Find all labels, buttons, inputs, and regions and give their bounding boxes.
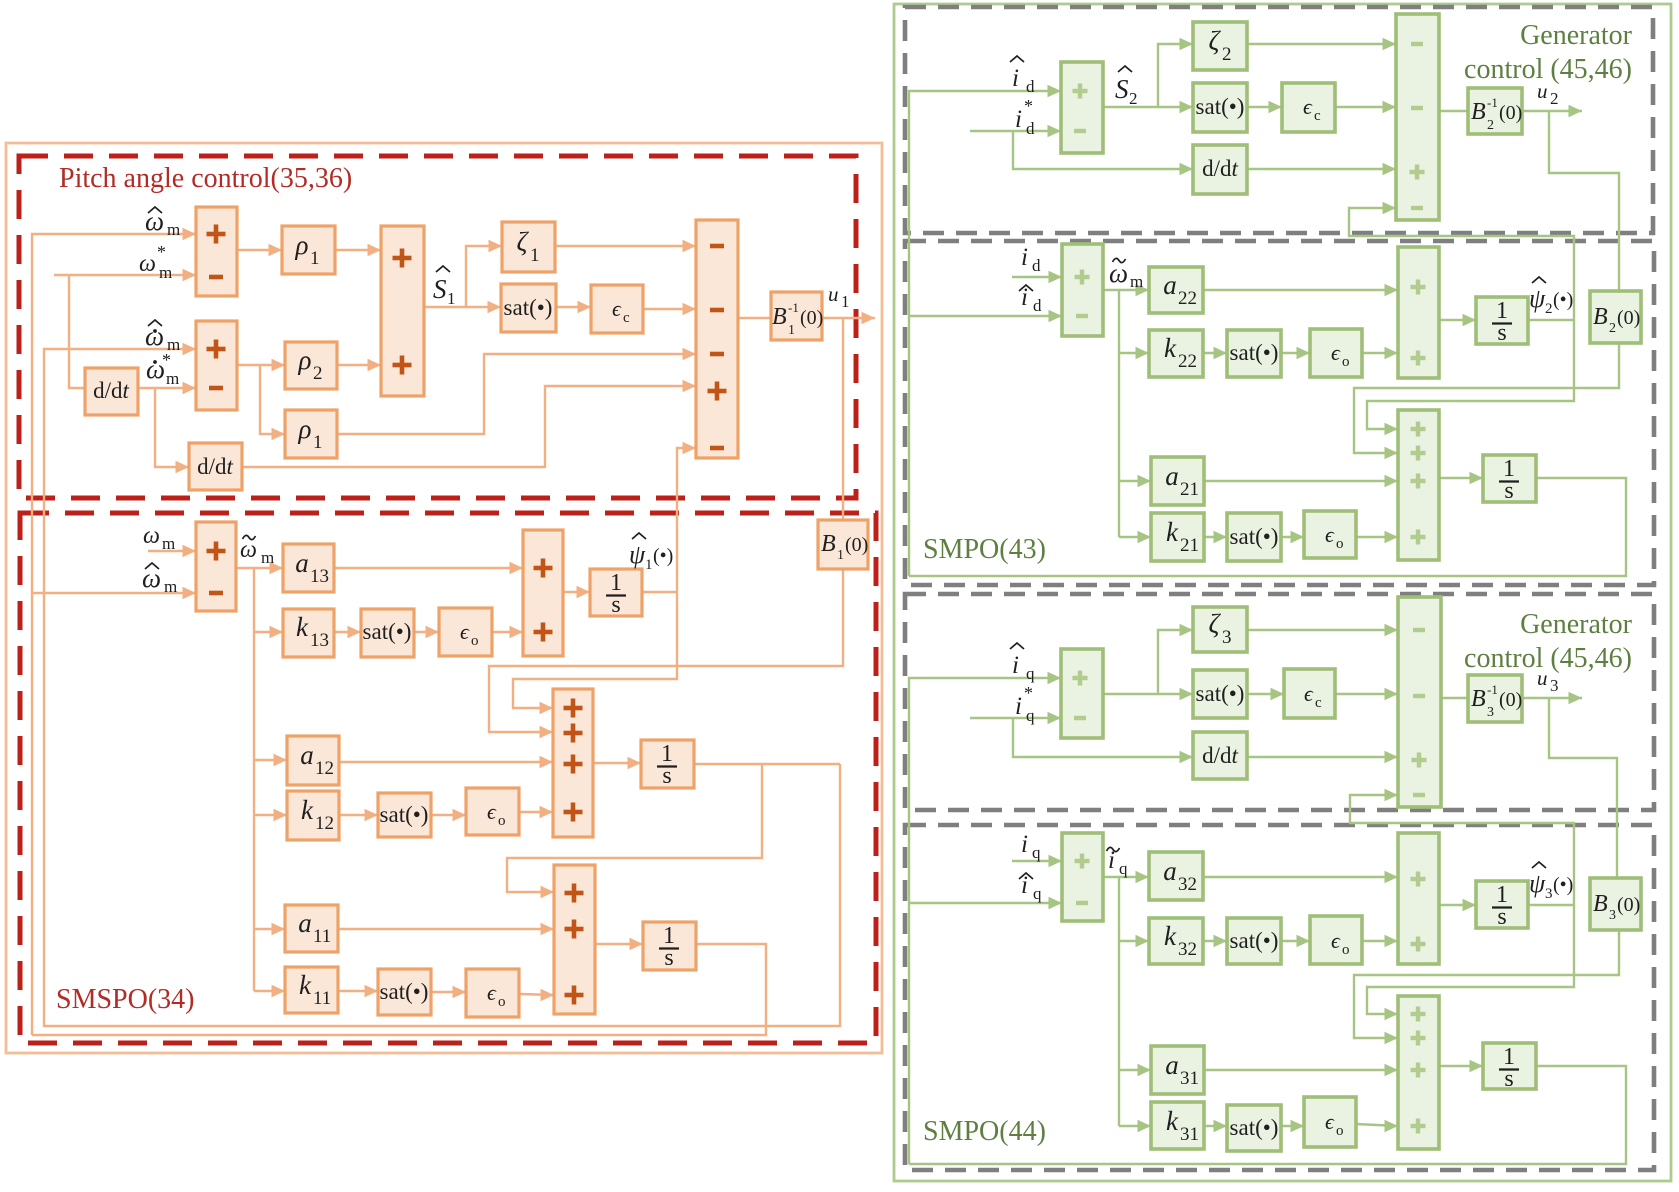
svg-text:o: o <box>471 633 479 649</box>
block eps_o 44a <box>1310 916 1362 964</box>
wire a13 out to sum4 <box>334 562 523 574</box>
wire S2 branch to zeta2 <box>1158 38 1193 107</box>
block ddt1 <box>85 368 138 415</box>
block 1/s 43a <box>1476 297 1528 346</box>
sum block SMSPO sum1 <box>196 522 236 611</box>
block a11 <box>285 905 338 952</box>
wire zeta2 out <box>1247 38 1396 50</box>
block k32 <box>1149 918 1203 964</box>
wire iq_hat estimate loop <box>909 1066 1626 1164</box>
block ddt g2 <box>1193 732 1247 779</box>
wire eps_o2 to middle sum <box>519 806 553 818</box>
wire k12 to sat3 <box>339 809 378 821</box>
svg-text:s: s <box>1504 1066 1513 1092</box>
svg-text:-1: -1 <box>788 300 799 315</box>
label omega_star_m pitch1 <box>139 242 172 282</box>
wire pitch sum2 out to rho2 <box>237 359 285 371</box>
block B2 inverse <box>1468 88 1522 134</box>
wire sat to eps_o 44b <box>1281 1120 1304 1132</box>
block B3 inverse <box>1468 675 1522 722</box>
wire sum2 out to 1/s 44 <box>1439 899 1476 911</box>
wire omega_dot_hat rail to pitch sum2 + <box>44 343 840 1026</box>
svg-text:1: 1 <box>447 289 456 308</box>
label omega_dotstar_m pitch2 <box>146 350 179 388</box>
svg-text:d: d <box>1026 77 1035 96</box>
wire omega_star branch to d/dt1 <box>69 275 85 388</box>
svg-text:s: s <box>1504 478 1513 504</box>
label iq_tilde SMPO44 <box>1107 847 1129 878</box>
wire id_star to gen1 sum - <box>970 125 1061 137</box>
wire eps_c out g2 <box>1335 688 1398 700</box>
wire psi1hat down to middle sum <box>513 592 677 714</box>
sum block SMPO43 sum3 <box>1398 410 1439 560</box>
svg-text:ρ: ρ <box>295 230 309 260</box>
wire trunk to a11 <box>254 923 285 935</box>
svg-text:a: a <box>300 740 314 770</box>
wire sum3 out to 1/s2 44 <box>1439 1060 1483 1072</box>
wire omega_star input to pitch sum1 - <box>54 269 196 281</box>
wire u1 branch down to B1(0) <box>842 318 844 520</box>
block k22 <box>1149 330 1203 377</box>
sum block bottom sum <box>554 865 595 1014</box>
block eps_o2 <box>466 788 519 835</box>
block sat g1 <box>1193 83 1247 132</box>
svg-text:ϵ: ϵ <box>1331 928 1341 953</box>
wire id_star branch to ddt <box>1013 131 1193 175</box>
block 1/s 43b <box>1483 455 1536 504</box>
wire iq_hat rail to gen2 sum + <box>909 672 1061 1164</box>
svg-text:11: 11 <box>313 926 331 947</box>
block sat1 <box>501 284 556 332</box>
svg-text:11: 11 <box>313 988 331 1009</box>
wire iq input stub <box>1012 855 1062 867</box>
block k13 <box>283 609 334 657</box>
label psi1 hat <box>629 533 673 573</box>
sum block pitch sum1 <box>196 207 237 296</box>
svg-text:3: 3 <box>1550 676 1559 695</box>
svg-text:22: 22 <box>1178 288 1197 309</box>
svg-text:c: c <box>1315 695 1322 711</box>
svg-text:(0): (0) <box>1617 307 1640 329</box>
block rho1b <box>285 410 337 458</box>
wire eps_c out g1 <box>1335 101 1396 113</box>
block sat4 <box>378 969 431 1015</box>
svg-text:21: 21 <box>1180 479 1199 500</box>
wire omega_hat_m branch to SMSPO sum - <box>32 587 196 599</box>
wire zeta1 out to minus block <box>555 240 696 252</box>
svg-text:(0): (0) <box>845 534 868 556</box>
svg-text:(•): (•) <box>1553 289 1573 311</box>
svg-text:d: d <box>1026 119 1035 138</box>
wire k22 to sat <box>1203 347 1227 359</box>
svg-text:i: i <box>1021 244 1028 271</box>
wire omega_tilde trunk 43 <box>1103 290 1119 537</box>
wire B3(0) down to sum3 input2 44 <box>1354 930 1619 1044</box>
svg-text:o: o <box>1342 354 1350 370</box>
svg-text:q: q <box>1026 664 1035 683</box>
svg-text:3: 3 <box>1545 886 1553 902</box>
svg-text:ρ: ρ <box>298 345 312 375</box>
svg-text:sat(•): sat(•) <box>1196 94 1245 119</box>
svg-text:q: q <box>1032 843 1041 862</box>
svg-text:2: 2 <box>1129 89 1138 108</box>
svg-text:ω: ω <box>143 523 160 549</box>
block eps_o 44b <box>1304 1097 1356 1147</box>
block 1/s 44b <box>1483 1043 1536 1092</box>
wire id_hat branch to SMPO43 sum - <box>909 310 1062 322</box>
block k12 <box>287 791 339 840</box>
svg-text:12: 12 <box>315 758 334 779</box>
wire id_hat rail to gen1 sum + <box>909 85 1061 576</box>
svg-text:m: m <box>167 220 180 239</box>
label omega_m smspo <box>143 523 175 553</box>
svg-text:-1: -1 <box>1487 682 1498 697</box>
label omega_hat_m smspo <box>142 563 177 596</box>
svg-text:32: 32 <box>1178 874 1197 895</box>
svg-text:(0): (0) <box>1499 102 1522 124</box>
label iq_hat gen2 <box>1010 643 1035 683</box>
svg-text:k: k <box>296 612 309 642</box>
block k11 <box>285 967 338 1013</box>
svg-text:13: 13 <box>310 630 329 651</box>
wire k21 to sat <box>1204 531 1227 543</box>
sum block SMPO43 sum2 <box>1398 247 1439 378</box>
wire sat3 to eps_o2 <box>431 809 466 821</box>
svg-text:c: c <box>623 310 630 326</box>
svg-text:1: 1 <box>645 557 653 573</box>
block eps_c pitch <box>591 285 643 333</box>
wire u3 branch to B3(0) <box>1549 698 1617 878</box>
svg-text:ϵ: ϵ <box>1303 94 1313 119</box>
wire trunk to a13 <box>254 562 283 574</box>
svg-text:sat(•): sat(•) <box>1230 928 1279 953</box>
pitch angle control dashed border <box>19 156 856 498</box>
svg-text:(•): (•) <box>1553 874 1573 896</box>
svg-text:i: i <box>1012 652 1019 679</box>
sum block gen1 chain <box>1396 14 1439 220</box>
wire psi3 out <box>1528 904 1574 906</box>
svg-text:B: B <box>1593 891 1608 917</box>
wire branch to rho1b <box>260 365 285 440</box>
block a12 <box>287 736 339 785</box>
SMSPO dashed border <box>20 513 876 1043</box>
wire rho1b out to minus block <box>337 348 696 434</box>
svg-text:i: i <box>1015 693 1022 720</box>
label id_hat gen1 <box>1010 56 1035 96</box>
svg-text:-1: -1 <box>1487 95 1498 110</box>
label omega_tilde_m smspo <box>240 535 274 567</box>
svg-text:2: 2 <box>1222 44 1232 65</box>
wire sum2 out to 1/s 43 <box>1439 314 1476 326</box>
svg-text:2: 2 <box>1550 89 1559 108</box>
svg-text:s: s <box>1497 320 1506 346</box>
svg-text:d: d <box>1033 296 1042 315</box>
wire eps_o out 44a <box>1362 935 1398 947</box>
svg-text:k: k <box>301 795 314 825</box>
svg-text:S: S <box>1115 74 1129 104</box>
svg-text:i: i <box>1015 106 1022 133</box>
outer orange border box <box>6 143 882 1053</box>
title Generator control 1 <box>1464 20 1633 85</box>
wire sat out to eps_c <box>556 301 591 313</box>
wire sat4 to eps_o3 <box>431 986 466 998</box>
block sat 44a <box>1227 918 1281 964</box>
svg-text:ω: ω <box>145 206 164 236</box>
svg-text:m: m <box>261 548 274 567</box>
sum block gen2 sum1 <box>1061 649 1103 738</box>
wire x2 branch to bottom sum <box>507 764 762 898</box>
wire trunk to a12 <box>254 754 287 766</box>
svg-text:1: 1 <box>530 245 540 266</box>
svg-text:*: * <box>1024 683 1033 703</box>
sum block big plus <box>381 226 424 396</box>
block sat 43a <box>1227 330 1281 377</box>
svg-text:o: o <box>1336 1123 1344 1139</box>
wire B2(0) down to sum3 input2 <box>1354 343 1619 459</box>
svg-text:sat(•): sat(•) <box>504 295 553 320</box>
svg-text:2: 2 <box>1487 118 1494 133</box>
sum block SMPO44 sum2 <box>1398 833 1439 964</box>
wire trunk to a31 <box>1119 1064 1151 1076</box>
svg-text:m: m <box>1130 272 1143 291</box>
wire sat to eps_o 44a <box>1281 935 1310 947</box>
svg-text:Generator: Generator <box>1520 20 1633 51</box>
svg-text:*: * <box>157 242 166 262</box>
sum block SMPO44 sum1 <box>1062 833 1103 921</box>
block sat 44b <box>1227 1105 1281 1151</box>
wire S2 out to sat <box>1103 101 1193 113</box>
svg-text:ϵ: ϵ <box>487 980 497 1005</box>
wire trunk to a32 <box>1119 871 1149 883</box>
wire iq_star branch to ddt g2 <box>1013 718 1193 763</box>
wire trunk to k32 <box>1119 935 1149 947</box>
label iq SMPO44 <box>1021 831 1041 862</box>
block 1/s 1 <box>590 569 642 618</box>
wire trunk to k11 <box>254 985 285 997</box>
svg-text:B: B <box>821 531 836 557</box>
sum block pitch sum2 <box>196 321 237 410</box>
label omega_tilde SMPO43 <box>1109 258 1143 291</box>
sum block minus chain <box>696 220 738 458</box>
wire psi3 down to sum3 input1 44 <box>1367 905 1574 1020</box>
block k31 <box>1151 1102 1204 1149</box>
block B1(0) <box>818 520 868 569</box>
wire id_hat estimate loop <box>909 478 1626 576</box>
label iq_star gen2 <box>1015 683 1035 725</box>
block 1/s 2 <box>641 740 694 789</box>
wire B1(0) down to middle sum <box>489 569 843 738</box>
block zeta1 <box>502 222 555 272</box>
svg-text:1: 1 <box>841 292 850 311</box>
wire middle sum out to 1/s2 <box>593 757 641 769</box>
wire k13 to sat2 <box>334 626 361 638</box>
wire trunk to a21 <box>1119 475 1151 487</box>
block sat2 <box>361 609 414 657</box>
wire psi2 out <box>1528 319 1574 321</box>
svg-text:32: 32 <box>1178 939 1197 960</box>
svg-text:control (45,46): control (45,46) <box>1464 643 1632 674</box>
svg-text:ρ: ρ <box>298 414 312 444</box>
svg-text:a: a <box>1165 1050 1179 1080</box>
svg-text:*: * <box>162 350 171 370</box>
svg-text:sat(•): sat(•) <box>1196 681 1245 706</box>
svg-text:*: * <box>1024 96 1033 116</box>
block 1/s 3 <box>643 922 696 971</box>
wire iq_hat branch to SMPO44 sum - <box>909 897 1062 909</box>
svg-text:B: B <box>1471 686 1486 712</box>
svg-text:k: k <box>1166 1106 1179 1136</box>
svg-text:u: u <box>828 282 839 306</box>
svg-text:sat(•): sat(•) <box>380 802 429 827</box>
block rho2 <box>285 342 337 389</box>
svg-text:S: S <box>433 274 447 304</box>
wire gen1 sum out to B2inv <box>1439 110 1468 112</box>
sum block gen2 chain <box>1398 597 1441 807</box>
wire sat to eps_c g2 <box>1247 688 1284 700</box>
svg-text:2: 2 <box>1545 301 1553 317</box>
title Pitch angle control(35,36) <box>59 163 352 194</box>
svg-text:ϵ: ϵ <box>487 799 497 824</box>
wire S1hat branch to zeta1 <box>466 240 502 307</box>
svg-text:u: u <box>1537 79 1548 103</box>
svg-text:B: B <box>772 304 787 330</box>
wire rho2 out <box>337 359 381 371</box>
wire sum4 out to 1/s1 <box>563 586 590 598</box>
wire iq_tilde trunk 44 <box>1103 877 1119 1126</box>
label id_star gen1 <box>1015 96 1035 138</box>
svg-text:ϵ: ϵ <box>1331 340 1341 365</box>
wire gen2 sum out to B3inv <box>1441 697 1468 699</box>
svg-text:m: m <box>159 263 172 282</box>
wire rho1 out to big plus sum <box>335 244 381 256</box>
block k21 <box>1151 513 1204 561</box>
block sat3 <box>378 793 431 837</box>
svg-text:k: k <box>1166 517 1179 547</box>
wire a12 out to middle sum <box>339 756 553 768</box>
svg-text:a: a <box>1165 461 1179 491</box>
title SMPO(44) <box>923 1116 1046 1147</box>
block zeta3 <box>1193 607 1247 652</box>
svg-text:sat(•): sat(•) <box>1230 1115 1279 1140</box>
block B2(0) <box>1590 291 1641 343</box>
block 1/s 44a <box>1476 881 1528 930</box>
svg-text:k: k <box>299 970 312 1000</box>
svg-text:a: a <box>1163 856 1177 886</box>
svg-text:B: B <box>1471 99 1486 125</box>
svg-text:a: a <box>295 548 309 578</box>
wire k11 to sat4 <box>338 985 378 997</box>
svg-text:31: 31 <box>1180 1068 1199 1089</box>
block ddt g1 <box>1193 145 1247 194</box>
wire a31 out <box>1204 1064 1398 1076</box>
wire sat2 to eps_o1 <box>414 626 439 638</box>
wire minus block out to B1inv <box>738 317 771 319</box>
svg-text:k: k <box>1164 333 1177 363</box>
wire u3 output <box>1522 692 1582 704</box>
block a32 <box>1149 852 1203 900</box>
wire a22 out <box>1203 284 1398 296</box>
svg-text:3: 3 <box>1487 705 1494 720</box>
svg-text:d/dt: d/dt <box>1202 156 1238 181</box>
block B1 inverse <box>771 292 823 340</box>
wire eps_o out 43b <box>1356 531 1398 543</box>
wire k32 to sat <box>1203 935 1227 947</box>
svg-text:12: 12 <box>315 813 334 834</box>
wire psi1hat up to minus block - <box>677 442 696 592</box>
svg-text:22: 22 <box>1178 351 1197 372</box>
sum block middle sum <box>553 689 593 837</box>
label omega_hat_m pitch1 <box>145 206 180 239</box>
label psi3 hat <box>1529 862 1573 902</box>
block eps_c g2 <box>1284 669 1335 718</box>
wire S3 out to sat <box>1103 688 1193 700</box>
svg-text:u: u <box>1537 666 1548 690</box>
block eps_o3 <box>466 969 519 1017</box>
label u3 <box>1537 666 1559 695</box>
wire sum3 out to 1/s2 43 <box>1439 472 1483 484</box>
svg-text:3: 3 <box>1222 627 1232 648</box>
wire pitch sum1 out to rho1 <box>237 244 282 256</box>
svg-text:ϵ: ϵ <box>460 619 470 644</box>
svg-text:ω: ω <box>139 251 156 277</box>
svg-text:SMSPO(34): SMSPO(34) <box>56 984 194 1015</box>
svg-text:SMPO(43): SMPO(43) <box>923 534 1046 565</box>
svg-text:d: d <box>1032 256 1041 275</box>
svg-text:1: 1 <box>837 548 844 563</box>
title SMPO(43) <box>923 534 1046 565</box>
block eps_o1 <box>439 608 492 656</box>
wire id input stub <box>1012 271 1062 283</box>
wire trunk to k22 <box>1119 347 1149 359</box>
sum block gen1 sum1 <box>1061 62 1103 153</box>
svg-text:d/dt: d/dt <box>93 378 129 403</box>
svg-text:ϵ: ϵ <box>1325 1109 1335 1134</box>
label omega_hatdot_m pitch2 <box>145 320 180 354</box>
svg-text:ϵ: ϵ <box>1304 681 1314 706</box>
svg-text:i: i <box>1021 831 1028 858</box>
sum block SMPO44 sum3 <box>1398 996 1439 1149</box>
wire eps_c out to minus block <box>643 303 696 315</box>
title SMSPO(34) <box>56 984 194 1015</box>
wire psi3 up to gen2 minus <box>1350 789 1574 905</box>
svg-text:sat(•): sat(•) <box>363 619 412 644</box>
wire iq_star to gen2 sum - <box>970 712 1061 724</box>
wire zeta3 out <box>1247 624 1398 636</box>
label S1 hat <box>433 266 456 308</box>
svg-text:ϵ: ϵ <box>1325 522 1335 547</box>
svg-text:sat(•): sat(•) <box>380 979 429 1004</box>
block a31 <box>1151 1046 1204 1094</box>
wire u2 branch to B2(0) <box>1549 111 1619 291</box>
wire eps_o out 43a <box>1362 347 1398 359</box>
block B3(0) <box>1590 878 1641 930</box>
wire sat to eps_o 43a <box>1281 347 1310 359</box>
block rho1 <box>282 226 335 274</box>
SMPO44 dashed border <box>905 825 1654 1170</box>
outer green border box <box>894 4 1671 1181</box>
wire 1/s2 output to rail <box>694 763 840 765</box>
svg-text:s: s <box>1497 904 1506 930</box>
wire a21 out <box>1204 475 1398 487</box>
wire u1 output <box>822 312 875 324</box>
svg-text:SMPO(44): SMPO(44) <box>923 1116 1046 1147</box>
label iqhat dot SMPO44 <box>1019 872 1042 903</box>
block ddt2 <box>189 443 242 490</box>
block eps_o 43a <box>1310 329 1362 377</box>
sum block psi sum <box>523 530 563 656</box>
generator control 1 dashed border <box>905 7 1653 233</box>
label S2 hat <box>1115 66 1138 108</box>
